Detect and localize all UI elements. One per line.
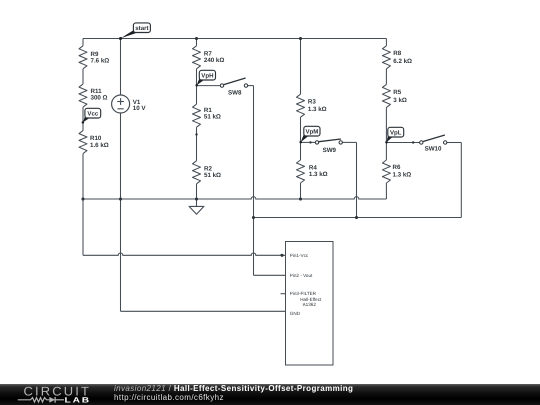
svg-text:LAB: LAB [65, 396, 92, 405]
